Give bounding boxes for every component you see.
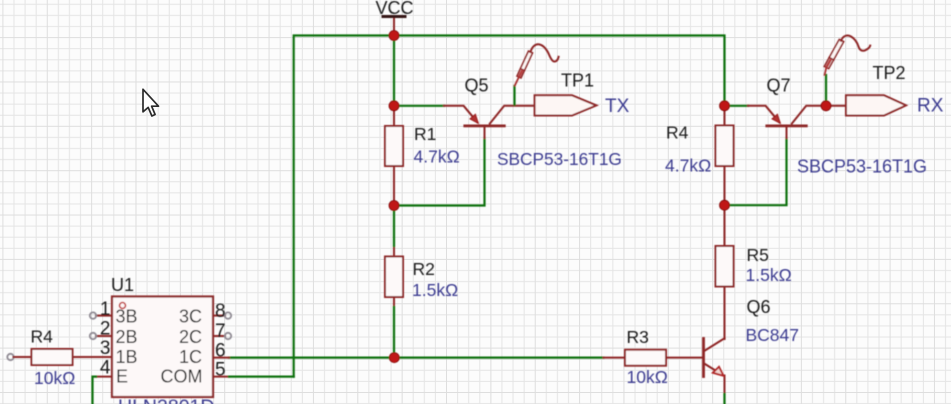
- resistor R4 left: [7, 327, 112, 389]
- junction node R2 bottom: [389, 353, 399, 363]
- svg-text:TP2: TP2: [873, 63, 906, 83]
- svg-text:ULN2801D: ULN2801D: [118, 396, 214, 404]
- junction node TP2: [821, 101, 831, 111]
- resistor R2: [385, 246, 458, 307]
- wire Q7 emitter feed: [725, 105, 749, 107]
- wire pin5 to left riser: [229, 376, 294, 378]
- wire Q6 emitter down: [723, 394, 725, 404]
- svg-text:Q6: Q6: [747, 297, 771, 317]
- junction node R1 top: [389, 101, 399, 111]
- wire top VCC rail: [294, 36, 725, 377]
- pin 1: [96, 315, 112, 317]
- svg-text:TX: TX: [605, 96, 630, 117]
- wire Q5 base to node: [394, 138, 485, 206]
- wire VCC column to R1: [393, 36, 395, 107]
- svg-text:COM: COM: [161, 367, 203, 387]
- svg-text:3C: 3C: [179, 306, 202, 326]
- junction node VCC rail: [389, 31, 399, 41]
- svg-text:RX: RX: [917, 96, 944, 117]
- wire pin4 to bottom: [93, 377, 97, 404]
- svg-text:7: 7: [215, 321, 226, 342]
- svg-text:4: 4: [100, 358, 111, 379]
- svg-text:Q7: Q7: [767, 76, 791, 96]
- resistor R4 right: [665, 106, 734, 205]
- test point TP2: [824, 36, 943, 117]
- svg-text:1.5kΩ: 1.5kΩ: [746, 265, 792, 285]
- svg-text:R1: R1: [414, 124, 436, 144]
- IC U1: [90, 275, 231, 404]
- svg-text:1.5kΩ: 1.5kΩ: [412, 280, 458, 300]
- wire R2 column: [393, 206, 395, 358]
- wire Q7 base to node: [725, 138, 787, 205]
- svg-text:1B: 1B: [116, 347, 138, 367]
- svg-text:E: E: [116, 367, 128, 387]
- svg-text:1C: 1C: [179, 347, 202, 367]
- pin 5: [213, 376, 229, 378]
- svg-text:4.7kΩ: 4.7kΩ: [414, 147, 460, 167]
- svg-text:R4: R4: [666, 123, 689, 143]
- test point TP1: [515, 44, 630, 117]
- svg-text:VCC: VCC: [375, 0, 413, 18]
- resistor R5: [716, 205, 792, 339]
- svg-text:2: 2: [100, 319, 111, 340]
- resistor R3: [604, 327, 703, 387]
- mouse cursor: [143, 89, 159, 116]
- svg-text:SBCP53-16T1G: SBCP53-16T1G: [797, 157, 927, 177]
- svg-text:6: 6: [215, 341, 226, 362]
- wire long bottom net: [229, 357, 604, 359]
- svg-text:5: 5: [215, 360, 226, 381]
- pin 4: [96, 376, 112, 378]
- svg-text:BC847: BC847: [746, 325, 800, 345]
- transistor Q5: [444, 76, 622, 170]
- svg-text:R3: R3: [627, 327, 649, 347]
- junction node R4/R5: [720, 200, 730, 210]
- svg-text:2C: 2C: [179, 327, 202, 347]
- svg-text:10kΩ: 10kΩ: [627, 367, 668, 387]
- svg-text:3: 3: [100, 338, 111, 359]
- power flag VCC: [375, 0, 413, 36]
- resistor R1: [385, 106, 460, 206]
- wire R1 top to Q5 emitter: [394, 105, 444, 107]
- svg-text:R2: R2: [413, 259, 435, 279]
- svg-text:Q5: Q5: [465, 76, 489, 96]
- svg-text:2B: 2B: [116, 327, 138, 347]
- svg-text:10kΩ: 10kΩ: [34, 368, 75, 388]
- svg-text:R5: R5: [747, 245, 769, 265]
- svg-text:1: 1: [100, 299, 111, 320]
- svg-text:R4: R4: [31, 327, 54, 347]
- pin 6: [213, 357, 229, 359]
- svg-text:SBCP53-16T1G: SBCP53-16T1G: [497, 149, 622, 169]
- junction node R4 top: [720, 101, 730, 111]
- transistor Q7: [748, 76, 927, 177]
- pin 7: [213, 335, 225, 337]
- svg-text:8: 8: [215, 301, 226, 322]
- pin 2: [96, 335, 112, 337]
- transistor Q6: [704, 297, 800, 394]
- svg-text:U1: U1: [111, 275, 134, 295]
- svg-text:TP1: TP1: [561, 71, 594, 91]
- svg-text:4.7kΩ: 4.7kΩ: [665, 156, 711, 176]
- junction node R1/R2: [389, 201, 399, 211]
- svg-text:3B: 3B: [116, 306, 138, 326]
- pin 8: [213, 315, 225, 317]
